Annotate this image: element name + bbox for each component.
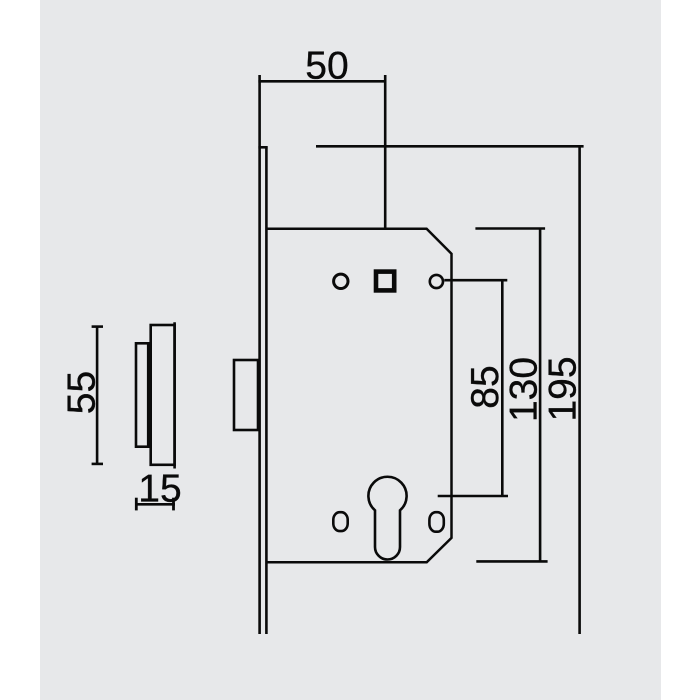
dim 195 top extension	[316, 145, 584, 148]
side view latch block small rect	[136, 343, 148, 446]
dim 15 left tick	[135, 498, 138, 511]
spindle square hole	[376, 272, 394, 291]
dim 85 line	[501, 280, 504, 496]
dim 85 bottom extension	[438, 495, 508, 498]
svg-text:195: 195	[542, 356, 585, 421]
side view faceplate tall rect	[151, 325, 175, 465]
dim 50 right extension	[384, 75, 387, 229]
svg-text:15: 15	[138, 467, 181, 510]
right circle hole	[430, 275, 443, 288]
svg-text:85: 85	[464, 365, 507, 408]
dim 85 top extension	[444, 279, 507, 282]
lock case outline	[266, 229, 451, 563]
side view faceplate right edge overshoot	[173, 322, 176, 468]
svg-text:50: 50	[305, 45, 348, 88]
dim 195 line	[578, 146, 581, 634]
euro profile cylinder hole	[368, 477, 406, 560]
dim 130 line	[539, 229, 542, 562]
right oval screw hole	[429, 512, 443, 532]
left oval screw hole	[333, 512, 347, 531]
dim 55 bottom tick	[92, 463, 103, 466]
handle follower hole (left circle)	[334, 274, 348, 288]
dim 130 bottom extension	[476, 560, 547, 563]
faceplate left edge + 50-dim left extension	[258, 75, 261, 634]
latch bolt	[234, 360, 258, 430]
dim 15 line	[136, 503, 175, 506]
svg-text:130: 130	[503, 357, 546, 422]
dim 55 line	[96, 327, 99, 464]
dim 55 top tick	[92, 325, 103, 328]
svg-text:55: 55	[61, 371, 104, 414]
faceplate right edge	[265, 146, 268, 634]
faceplate top edge	[258, 146, 267, 149]
dim 50 line	[258, 80, 386, 83]
dim 15 right tick	[172, 498, 175, 511]
dim 130 top extension	[475, 227, 545, 230]
